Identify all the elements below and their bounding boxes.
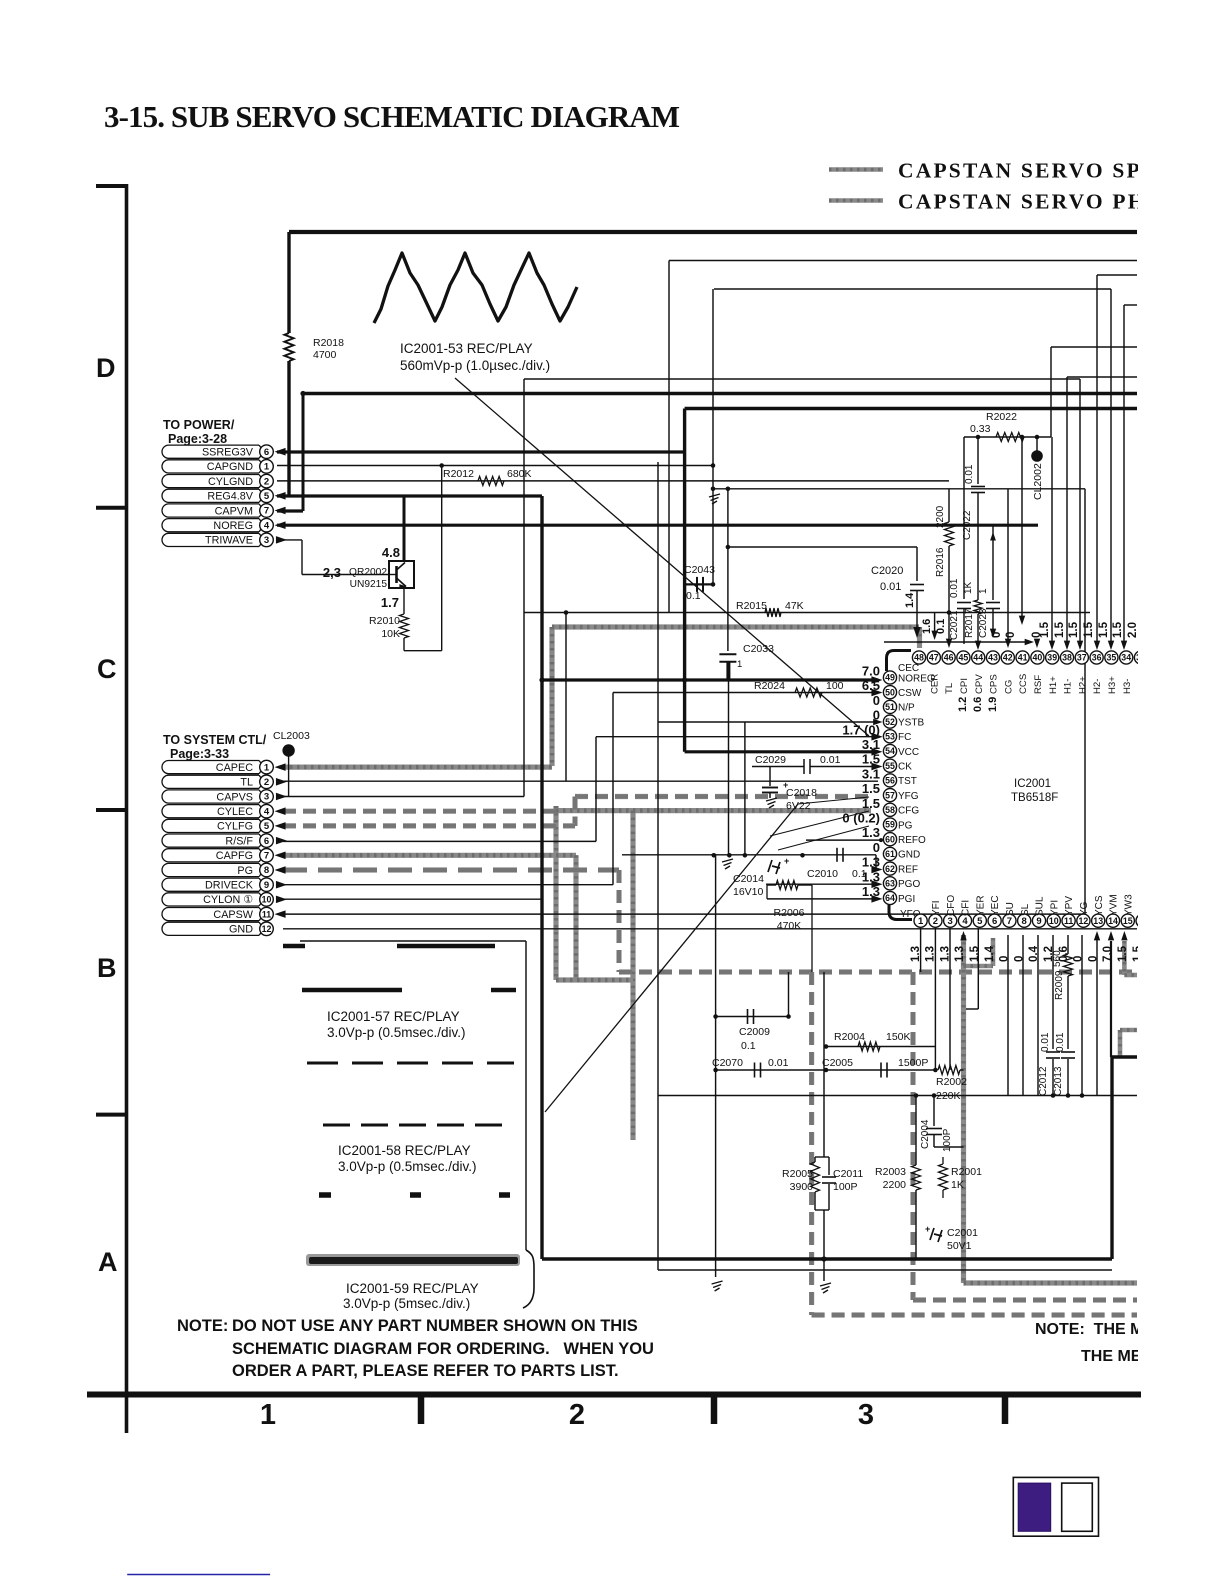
svg-text:QR2002: QR2002 xyxy=(349,567,387,578)
svg-text:10: 10 xyxy=(262,895,272,905)
svg-text:C2043: C2043 xyxy=(684,564,715,576)
svg-text:R2003: R2003 xyxy=(875,1166,906,1178)
svg-text:CYLON ①: CYLON ① xyxy=(203,894,253,906)
svg-text:6: 6 xyxy=(264,836,269,847)
svg-text:2,3: 2,3 xyxy=(323,565,341,580)
svg-text:R/S/F: R/S/F xyxy=(225,835,253,847)
svg-text:REFO: REFO xyxy=(898,835,926,846)
svg-text:42: 42 xyxy=(1003,653,1013,663)
svg-text:1.5: 1.5 xyxy=(1068,621,1080,638)
svg-text:0: 0 xyxy=(873,708,880,723)
svg-text:4: 4 xyxy=(264,520,270,531)
svg-text:3.0Vp-p (0.5msec./div.): 3.0Vp-p (0.5msec./div.) xyxy=(338,1159,477,1174)
svg-text:49: 49 xyxy=(885,673,895,683)
svg-text:60: 60 xyxy=(885,834,895,844)
svg-text:SU: SU xyxy=(1005,902,1016,916)
svg-text:560mVp-p (1.0µsec./div.): 560mVp-p (1.0µsec./div.) xyxy=(400,358,550,373)
svg-text:YG: YG xyxy=(1079,901,1090,916)
svg-text:SSREG3V: SSREG3V xyxy=(202,447,254,459)
svg-text:1.3: 1.3 xyxy=(862,869,880,884)
svg-text:H1-: H1- xyxy=(1063,679,1074,694)
svg-text:0.6: 0.6 xyxy=(972,697,984,712)
svg-text:64: 64 xyxy=(885,893,895,903)
svg-text:680K: 680K xyxy=(507,468,532,480)
svg-text:A: A xyxy=(98,1247,118,1277)
svg-text:0.1: 0.1 xyxy=(935,619,947,634)
svg-text:3.1: 3.1 xyxy=(862,737,880,752)
svg-text:C2011: C2011 xyxy=(833,1168,863,1180)
svg-text:CAPVM: CAPVM xyxy=(215,505,253,517)
svg-text:REG4.8V: REG4.8V xyxy=(207,491,253,503)
svg-text:CPV: CPV xyxy=(974,674,985,694)
svg-text:1.3: 1.3 xyxy=(910,946,922,962)
svg-text:3.0Vp-p (0.5msec./div.): 3.0Vp-p (0.5msec./div.) xyxy=(327,1025,466,1040)
svg-text:50V1: 50V1 xyxy=(947,1240,972,1252)
svg-text:3: 3 xyxy=(264,535,269,546)
svg-text:1.3: 1.3 xyxy=(862,825,880,840)
svg-text:1.6: 1.6 xyxy=(921,619,933,634)
svg-text:63: 63 xyxy=(885,879,895,889)
svg-text:51: 51 xyxy=(885,702,895,712)
svg-text:1: 1 xyxy=(737,659,742,670)
svg-text:D: D xyxy=(96,353,116,383)
svg-text:10: 10 xyxy=(1049,916,1059,926)
svg-text:1.5: 1.5 xyxy=(862,796,880,811)
svg-text:CAPGND: CAPGND xyxy=(207,461,253,473)
svg-text:0: 0 xyxy=(1073,956,1085,962)
svg-text:57: 57 xyxy=(885,790,895,800)
svg-text:7: 7 xyxy=(1007,916,1012,927)
svg-text:YER: YER xyxy=(975,895,986,916)
svg-text:1.3: 1.3 xyxy=(925,946,937,962)
svg-text:Page:3-28: Page:3-28 xyxy=(168,432,227,446)
svg-text:0.01: 0.01 xyxy=(820,754,841,766)
svg-text:48: 48 xyxy=(914,653,924,663)
svg-text:C2018: C2018 xyxy=(786,787,817,799)
svg-text:5: 5 xyxy=(264,491,270,502)
svg-text:1.3: 1.3 xyxy=(939,946,951,962)
svg-text:3.0Vp-p (5msec./div.): 3.0Vp-p (5msec./div.) xyxy=(343,1296,470,1311)
svg-text:4700: 4700 xyxy=(313,349,337,361)
svg-text:2: 2 xyxy=(933,916,938,927)
svg-text:RSF: RSF xyxy=(1033,675,1044,694)
svg-text:H3+: H3+ xyxy=(1107,676,1118,694)
svg-text:VCC: VCC xyxy=(898,747,919,758)
svg-text:IC2001: IC2001 xyxy=(1014,778,1051,790)
svg-text:ORDER A PART, PLEASE REFER TO: ORDER A PART, PLEASE REFER TO PARTS LIST… xyxy=(232,1362,619,1380)
svg-text:1.5: 1.5 xyxy=(969,945,981,962)
svg-text:0: 0 xyxy=(1013,956,1025,962)
svg-text:3-15. SUB SERVO SCHEMATIC DIA: 3-15. SUB SERVO SCHEMATIC DIAGRAM xyxy=(104,99,680,134)
svg-text:40: 40 xyxy=(1033,653,1043,663)
svg-text:9: 9 xyxy=(264,880,269,891)
svg-text:15: 15 xyxy=(1123,916,1133,926)
svg-text:CAPFG: CAPFG xyxy=(216,850,253,862)
svg-text:TST: TST xyxy=(898,776,917,787)
svg-text:1.3: 1.3 xyxy=(862,884,880,899)
svg-text:9: 9 xyxy=(1036,916,1041,927)
svg-text:1.2: 1.2 xyxy=(957,697,969,712)
svg-text:37: 37 xyxy=(1077,653,1087,663)
svg-text:NOREG: NOREG xyxy=(213,520,253,532)
svg-text:YFG: YFG xyxy=(898,791,919,802)
svg-text:55: 55 xyxy=(885,761,895,771)
svg-text:CPS: CPS xyxy=(989,674,1000,694)
svg-text:52: 52 xyxy=(885,717,895,727)
svg-text:YPI: YPI xyxy=(1049,900,1060,916)
svg-text:3900: 3900 xyxy=(790,1181,814,1193)
svg-text:1: 1 xyxy=(264,762,270,773)
svg-text:2200: 2200 xyxy=(935,505,946,528)
svg-text:16V10: 16V10 xyxy=(733,886,764,898)
svg-text:C2012: C2012 xyxy=(1038,1066,1049,1096)
svg-text:8: 8 xyxy=(264,865,269,876)
svg-text:1.3: 1.3 xyxy=(862,855,880,870)
svg-text:100: 100 xyxy=(826,680,844,692)
svg-text:3: 3 xyxy=(948,916,953,927)
svg-text:C2070: C2070 xyxy=(712,1057,743,1069)
svg-text:0: 0 xyxy=(1087,956,1099,962)
svg-text:7: 7 xyxy=(264,851,269,862)
svg-text:PG: PG xyxy=(898,820,913,831)
svg-text:6: 6 xyxy=(264,447,269,458)
svg-text:TO POWER/: TO POWER/ xyxy=(163,418,235,432)
svg-text:1.5: 1.5 xyxy=(1054,621,1066,638)
svg-text:PGO: PGO xyxy=(898,879,920,890)
svg-text:59: 59 xyxy=(885,820,895,830)
svg-text:C2029: C2029 xyxy=(755,754,786,766)
svg-text:C2013: C2013 xyxy=(1053,1066,1064,1096)
svg-text:35: 35 xyxy=(1107,653,1117,663)
svg-text:CK: CK xyxy=(898,762,912,773)
svg-text:1: 1 xyxy=(260,1399,276,1431)
svg-text:YEC: YEC xyxy=(990,895,1001,916)
svg-text:REF: REF xyxy=(898,864,918,875)
svg-text:13: 13 xyxy=(1093,916,1103,926)
svg-text:R2009: R2009 xyxy=(1054,970,1065,1000)
svg-text:H1+: H1+ xyxy=(1048,676,1059,694)
svg-text:1: 1 xyxy=(264,462,270,473)
svg-text:3: 3 xyxy=(858,1399,874,1431)
svg-text:44: 44 xyxy=(973,653,983,663)
svg-text:C2010: C2010 xyxy=(807,868,838,880)
svg-text:7.0: 7.0 xyxy=(862,664,880,679)
svg-text:8: 8 xyxy=(1022,916,1027,927)
svg-text:YFI: YFI xyxy=(931,900,942,916)
svg-text:12: 12 xyxy=(262,924,272,934)
svg-text:2: 2 xyxy=(569,1399,585,1431)
svg-text:61: 61 xyxy=(885,849,895,859)
svg-text:46: 46 xyxy=(944,653,954,663)
svg-text:CFI: CFI xyxy=(961,900,972,916)
svg-text:CFG: CFG xyxy=(898,806,919,817)
svg-text:CAPVS: CAPVS xyxy=(216,791,253,803)
svg-text:0.01: 0.01 xyxy=(964,464,975,484)
svg-text:SUL: SUL xyxy=(1035,896,1046,916)
svg-text:0.01: 0.01 xyxy=(768,1057,789,1069)
svg-text:1: 1 xyxy=(918,916,924,927)
svg-text:YSTB: YSTB xyxy=(898,717,924,728)
svg-text:1.5: 1.5 xyxy=(1039,621,1051,638)
svg-text:1.5: 1.5 xyxy=(1117,945,1129,962)
svg-text:N/P: N/P xyxy=(898,703,915,714)
svg-text:1: 1 xyxy=(978,588,989,594)
svg-text:0.1: 0.1 xyxy=(741,1040,756,1052)
svg-text:CYLFG: CYLFG xyxy=(217,821,253,833)
svg-text:1.7 (0): 1.7 (0) xyxy=(842,722,880,737)
svg-text:0: 0 xyxy=(991,632,1003,638)
svg-text:TB6518F: TB6518F xyxy=(1011,792,1058,804)
svg-text:1.4: 1.4 xyxy=(984,945,996,962)
svg-text:CPI: CPI xyxy=(959,678,970,694)
svg-text:2: 2 xyxy=(264,476,269,487)
svg-text:0.6: 0.6 xyxy=(1058,946,1070,962)
svg-text:H3-: H3- xyxy=(1122,679,1133,694)
svg-text:6V22: 6V22 xyxy=(786,800,811,812)
svg-text:YPV: YPV xyxy=(1064,896,1075,916)
svg-text:YCS: YCS xyxy=(1094,895,1105,916)
svg-text:2.0: 2.0 xyxy=(1127,622,1139,638)
svg-text:CYLEC: CYLEC xyxy=(217,806,253,818)
svg-text:R2010: R2010 xyxy=(369,615,400,627)
svg-text:11: 11 xyxy=(1064,916,1073,926)
svg-text:DO NOT USE ANY PART NUMBER SHO: DO NOT USE ANY PART NUMBER SHOWN ON THIS xyxy=(232,1317,638,1335)
svg-text:53: 53 xyxy=(885,732,895,742)
svg-text:47K: 47K xyxy=(785,600,804,612)
svg-text:100P: 100P xyxy=(942,1128,953,1152)
svg-text:1K: 1K xyxy=(951,1179,964,1191)
svg-text:IC2001-58 REC/PLAY: IC2001-58 REC/PLAY xyxy=(338,1143,471,1158)
svg-text:+: + xyxy=(925,1224,930,1234)
svg-text:R2018: R2018 xyxy=(313,337,344,349)
svg-text:TL: TL xyxy=(944,682,955,694)
svg-text:R2005: R2005 xyxy=(782,1168,813,1180)
svg-text:1.3: 1.3 xyxy=(954,946,966,962)
svg-text:1.5: 1.5 xyxy=(1098,621,1110,638)
svg-text:0.01: 0.01 xyxy=(1055,1032,1066,1052)
svg-text:0.01: 0.01 xyxy=(949,578,960,598)
svg-text:C2014: C2014 xyxy=(733,873,764,885)
svg-text:1.5: 1.5 xyxy=(862,781,880,796)
svg-text:R2001: R2001 xyxy=(951,1166,982,1178)
svg-text:R2022: R2022 xyxy=(986,411,1017,423)
svg-text:34: 34 xyxy=(1121,653,1131,663)
svg-text:0.01: 0.01 xyxy=(880,581,901,593)
svg-text:CL2002: CL2002 xyxy=(1032,463,1044,500)
svg-text:39: 39 xyxy=(1047,653,1057,663)
svg-text:1.5: 1.5 xyxy=(1083,621,1095,638)
svg-text:NOTE:: NOTE: xyxy=(177,1317,228,1335)
svg-text:C2021: C2021 xyxy=(949,610,960,640)
svg-text:CSW: CSW xyxy=(898,688,922,699)
svg-text:Page:3-33: Page:3-33 xyxy=(170,747,229,761)
svg-text:1.5: 1.5 xyxy=(1112,621,1124,638)
svg-text:0.1: 0.1 xyxy=(686,590,701,602)
svg-text:CFO: CFO xyxy=(946,895,957,916)
svg-text:0.33: 0.33 xyxy=(970,423,991,435)
svg-text:1.2: 1.2 xyxy=(1043,946,1055,962)
svg-text:H2-: H2- xyxy=(1092,679,1103,694)
svg-text:1.5: 1.5 xyxy=(862,752,880,767)
svg-text:R2012: R2012 xyxy=(443,468,474,480)
svg-text:0: 0 xyxy=(873,693,880,708)
svg-text:B: B xyxy=(97,953,117,983)
svg-text:CAPSW: CAPSW xyxy=(213,909,253,921)
svg-text:R2006: R2006 xyxy=(774,907,805,919)
svg-text:TO SYSTEM CTL/: TO SYSTEM CTL/ xyxy=(163,733,267,747)
svg-text:C2033: C2033 xyxy=(743,643,774,655)
svg-text:IC2001-57 REC/PLAY: IC2001-57 REC/PLAY xyxy=(327,1009,460,1024)
svg-text:R2004: R2004 xyxy=(834,1031,865,1043)
svg-text:56: 56 xyxy=(885,776,895,786)
svg-text:58: 58 xyxy=(885,805,895,815)
svg-text:0: 0 xyxy=(999,956,1011,962)
svg-text:3.1: 3.1 xyxy=(862,766,880,781)
svg-text:47: 47 xyxy=(929,653,939,663)
svg-text:CYLGND: CYLGND xyxy=(208,476,253,488)
svg-text:FC: FC xyxy=(898,732,911,743)
svg-text:0: 0 xyxy=(1005,632,1017,638)
svg-text:0 (0.2): 0 (0.2) xyxy=(842,811,880,826)
svg-text:1.4: 1.4 xyxy=(904,592,916,608)
svg-text:CCS: CCS xyxy=(1018,674,1029,694)
svg-text:CG: CG xyxy=(1003,680,1014,694)
svg-text:IC2001-53 REC/PLAY: IC2001-53 REC/PLAY xyxy=(400,341,533,356)
svg-text:PG: PG xyxy=(237,865,253,877)
svg-text:YW3: YW3 xyxy=(1123,894,1134,916)
svg-text:C2001: C2001 xyxy=(947,1227,978,1239)
svg-text:3: 3 xyxy=(264,792,269,803)
svg-text:DRIVECK: DRIVECK xyxy=(205,880,254,892)
svg-text:2200: 2200 xyxy=(883,1179,907,1191)
svg-text:43: 43 xyxy=(988,653,998,663)
svg-text:IC2001-59 REC/PLAY: IC2001-59 REC/PLAY xyxy=(346,1281,479,1296)
svg-text:4: 4 xyxy=(264,806,270,817)
svg-text:0.01: 0.01 xyxy=(1040,1032,1051,1052)
svg-text:PGI: PGI xyxy=(898,894,915,905)
svg-text:TRIWAVE: TRIWAVE xyxy=(205,535,253,547)
svg-text:TL: TL xyxy=(240,777,253,789)
svg-text:R2002: R2002 xyxy=(936,1076,967,1088)
svg-text:CL2003: CL2003 xyxy=(273,730,310,742)
svg-text:C: C xyxy=(97,654,117,684)
svg-text:R2015: R2015 xyxy=(736,600,767,612)
svg-text:12: 12 xyxy=(1079,916,1089,926)
svg-text:GND: GND xyxy=(229,924,253,936)
svg-text:C2020: C2020 xyxy=(871,565,903,577)
svg-text:54: 54 xyxy=(885,746,895,756)
svg-text:H2+: H2+ xyxy=(1077,676,1088,694)
svg-text:0: 0 xyxy=(873,840,880,855)
svg-text:7: 7 xyxy=(264,506,269,517)
svg-text:45: 45 xyxy=(959,653,969,663)
svg-text:2: 2 xyxy=(264,777,269,788)
svg-text:10K: 10K xyxy=(381,628,400,640)
svg-text:C2005: C2005 xyxy=(822,1057,853,1069)
svg-text:41: 41 xyxy=(1018,653,1028,663)
svg-text:NOREG: NOREG xyxy=(898,673,935,684)
svg-text:50: 50 xyxy=(885,687,895,697)
svg-text:C2004: C2004 xyxy=(920,1119,931,1149)
svg-text:11: 11 xyxy=(262,909,271,919)
svg-text:R2024: R2024 xyxy=(754,680,785,692)
svg-text:36: 36 xyxy=(1092,653,1102,663)
svg-text:38: 38 xyxy=(1062,653,1072,663)
svg-text:1.9: 1.9 xyxy=(987,697,999,712)
svg-text:+: + xyxy=(784,856,789,866)
svg-text:4.8: 4.8 xyxy=(382,545,400,560)
svg-text:7.0: 7.0 xyxy=(1102,946,1114,962)
svg-text:YVM: YVM xyxy=(1109,894,1120,916)
svg-text:4: 4 xyxy=(962,916,968,927)
svg-text:C2009: C2009 xyxy=(739,1026,770,1038)
svg-text:5: 5 xyxy=(264,821,270,832)
svg-text:14: 14 xyxy=(1108,916,1118,926)
svg-text:62: 62 xyxy=(885,864,895,874)
svg-text:5: 5 xyxy=(977,916,983,927)
svg-text:1500P: 1500P xyxy=(898,1057,928,1069)
svg-text:100P: 100P xyxy=(833,1181,858,1193)
svg-text:470K: 470K xyxy=(777,920,802,932)
svg-text:SCHEMATIC DIAGRAM FOR ORDERING: SCHEMATIC DIAGRAM FOR ORDERING. WHEN YOU xyxy=(232,1340,654,1358)
svg-text:CAPEC: CAPEC xyxy=(216,762,253,774)
svg-text:UN9215: UN9215 xyxy=(350,579,388,590)
svg-text:GND: GND xyxy=(898,850,920,861)
svg-text:R2016: R2016 xyxy=(935,547,946,577)
svg-text:SL: SL xyxy=(1020,903,1031,916)
svg-text:1.7: 1.7 xyxy=(381,595,399,610)
svg-text:6.5: 6.5 xyxy=(862,678,880,693)
svg-text:6: 6 xyxy=(992,916,997,927)
svg-text:150K: 150K xyxy=(886,1031,911,1043)
svg-text:0.4: 0.4 xyxy=(1028,945,1040,962)
